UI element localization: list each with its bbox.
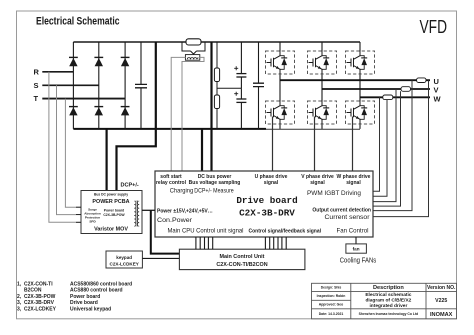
wire DC+ sampling to drive board <box>210 42 212 171</box>
relay bypass contact <box>182 42 205 54</box>
wire relay coil A to drive board <box>171 57 185 171</box>
svg-text:Version NO.: Version NO. <box>427 285 456 291</box>
wire U phase output <box>280 79 430 81</box>
power board U2 box <box>81 191 142 234</box>
svg-text:Inspection: Robin: Inspection: Robin <box>317 294 346 298</box>
balancing resistor R2 <box>214 42 219 82</box>
IGBT Q1 U-high <box>266 51 295 74</box>
label S <box>34 81 39 90</box>
wire inverter leg2 <box>321 42 323 129</box>
power board transformer T1 <box>134 201 139 227</box>
IGBT Q5 V-low <box>308 101 337 124</box>
svg-text:Current sensor: Current sensor <box>325 214 371 221</box>
wire DC- sampling to drive board <box>201 129 203 171</box>
drive board side labels <box>157 208 371 225</box>
svg-text:integrated driver: integrated driver <box>369 303 407 309</box>
svg-text:POWER PCBA: POWER PCBA <box>92 199 129 205</box>
svg-text:T: T <box>34 94 39 103</box>
wire bundle CPU control signals <box>196 237 213 249</box>
svg-text:C2X-3B-POW: C2X-3B-POW <box>103 213 125 217</box>
wire keypad to main control unit <box>142 257 179 259</box>
svg-text:Control signal/feedback signal: Control signal/feedback signal <box>249 228 322 234</box>
wire sensor W feedback b <box>373 100 387 197</box>
svg-text:1,: 1, <box>17 281 22 287</box>
title Electrical Schematic <box>36 16 120 28</box>
svg-text:keypad: keypad <box>116 255 132 260</box>
label R <box>34 67 40 76</box>
title VFD <box>420 16 448 37</box>
wire DCP+ feed to power board <box>117 42 156 191</box>
wire phase T input <box>42 98 125 100</box>
svg-text:signal: signal <box>346 180 361 186</box>
wire capacitor midpoint <box>217 87 241 89</box>
wire V phase output <box>322 88 430 90</box>
wire power to main control unit <box>151 210 180 253</box>
wire sensor U feedback b <box>373 80 429 216</box>
svg-text:Drive board: Drive board <box>236 195 297 206</box>
svg-text:fan: fan <box>353 247 360 252</box>
svg-text:Bus DC power supply: Bus DC power supply <box>94 192 128 196</box>
wire sensor V feedback b <box>373 91 401 206</box>
svg-text:Drive board: Drive board <box>70 300 98 306</box>
balancing resistor R3 <box>214 82 219 129</box>
svg-text:Main Control Unit: Main Control Unit <box>220 254 265 260</box>
svg-text:C2X-LCDKEY: C2X-LCDKEY <box>110 262 139 267</box>
diode D5 bottom leg2 <box>94 107 103 116</box>
wire sensor W feedback a <box>373 97 380 191</box>
wire power board to drive board <box>142 209 155 211</box>
svg-text:Power board: Power board <box>70 294 100 300</box>
power board labels <box>84 192 129 232</box>
wire W gate drive <box>352 117 354 172</box>
wire R tap to power board <box>49 72 81 223</box>
svg-text:C2X-3B-DRV: C2X-3B-DRV <box>24 300 55 306</box>
svg-text:Cooling FANs: Cooling FANs <box>340 256 377 265</box>
label DCP+/- <box>121 183 139 189</box>
IGBT Q3 W-high <box>346 51 375 74</box>
film capacitor C1 <box>135 42 147 129</box>
drive board title <box>236 195 297 219</box>
legend list <box>17 281 132 312</box>
svg-text:S: S <box>34 81 39 90</box>
fan box <box>346 244 367 253</box>
keypad box <box>106 251 142 268</box>
svg-text:SPD: SPD <box>89 220 96 224</box>
svg-text:Power ±15V,+24V,+5V…: Power ±15V,+24V,+5V… <box>157 209 213 215</box>
current sensor U <box>417 78 426 83</box>
svg-text:signal: signal <box>264 180 279 186</box>
wire relay coil B to drive board <box>182 57 204 171</box>
svg-text:2,: 2, <box>17 294 22 300</box>
bridge leg 2 wire <box>98 42 100 129</box>
svg-text:signal: signal <box>310 180 325 186</box>
terminal V <box>434 86 439 95</box>
drive board U1 box <box>155 171 373 237</box>
svg-text:V: V <box>434 86 439 95</box>
diode D6 bottom leg3 <box>121 107 130 116</box>
svg-text:Universal keypad: Universal keypad <box>70 307 111 313</box>
svg-text:R: R <box>34 67 40 76</box>
svg-text:B2CON: B2CON <box>24 288 42 294</box>
svg-text:DCP+/-: DCP+/- <box>121 183 139 189</box>
svg-text:Charging: Charging <box>170 188 194 195</box>
svg-text:ACS880 control board: ACS880 control board <box>70 288 123 294</box>
svg-text:C2X-CON-TI/B2CON: C2X-CON-TI/B2CON <box>216 262 267 268</box>
svg-text:INOMAX: INOMAX <box>430 312 453 318</box>
svg-text:W: W <box>434 94 442 103</box>
wire S tap to power board <box>57 85 82 214</box>
drive board bottom labels <box>168 227 369 234</box>
svg-text:DCP+/- Measure: DCP+/- Measure <box>194 188 234 195</box>
wire fan control <box>355 237 357 244</box>
electrolytic capacitor C2 <box>234 42 246 88</box>
soft start charging resistor <box>186 39 201 45</box>
svg-text:Description: Description <box>373 285 404 291</box>
diode D2 top leg2 <box>94 57 103 66</box>
IGBT Q4 U-low <box>266 101 295 124</box>
svg-text:U: U <box>434 77 439 86</box>
label cooling fans <box>340 256 377 265</box>
current sensor V <box>401 87 411 92</box>
svg-text:PWM IGBT Driving: PWM IGBT Driving <box>307 190 361 197</box>
bridge leg 3 wire <box>124 42 126 129</box>
terminal W <box>434 94 442 103</box>
wire U gate drive <box>272 117 274 172</box>
svg-text:Varistor MOV: Varistor MOV <box>94 227 128 233</box>
film capacitor C4 <box>253 42 264 129</box>
svg-text:ACS580/860 control board: ACS580/860 control board <box>70 281 132 287</box>
svg-text:relay control: relay control <box>156 180 187 186</box>
electrolytic capacitor C3 <box>234 88 246 129</box>
wire DCP- feed to power board <box>105 129 107 191</box>
wire sensor V feedback a <box>373 89 396 202</box>
wire T tap to power board <box>65 99 81 208</box>
bottom DC- bus <box>73 128 360 130</box>
svg-text:Con.Power: Con.Power <box>157 217 193 224</box>
svg-text:Main CPU Control unit signal: Main CPU Control unit signal <box>168 227 244 234</box>
IGBT Q6 W-low <box>346 101 375 124</box>
svg-text:Electrical schematic: Electrical schematic <box>365 292 411 298</box>
bridge leg 1 wire <box>72 42 74 129</box>
svg-text:C2X-LCDKEY: C2X-LCDKEY <box>24 307 57 313</box>
title block texts <box>317 285 456 318</box>
IGBT Q2 V-high <box>308 51 337 74</box>
svg-text:Design: Shis: Design: Shis <box>321 286 342 290</box>
wire inverter leg3 <box>359 42 361 129</box>
svg-text:V225: V225 <box>435 298 447 304</box>
svg-text:diagram of C/B/E/X2: diagram of C/B/E/X2 <box>365 298 411 304</box>
main control unit box <box>179 249 305 269</box>
wire bundle control feedback signals <box>265 237 286 249</box>
title block table <box>312 283 457 319</box>
wire sensor U feedback a <box>373 80 412 210</box>
terminal U <box>434 77 439 86</box>
svg-text:VFD: VFD <box>420 16 448 37</box>
diode D3 top leg3 <box>121 57 130 66</box>
svg-text:Approved: Geo: Approved: Geo <box>319 303 344 307</box>
svg-text:Power board: Power board <box>104 209 125 213</box>
power board input stubs <box>76 207 81 222</box>
wire V gate drive <box>314 117 316 172</box>
svg-text:Date: 14.3.2021: Date: 14.3.2021 <box>319 312 344 316</box>
top DC+ bus <box>73 41 360 43</box>
svg-text:C2X-3B-DRV: C2X-3B-DRV <box>239 208 295 219</box>
current sensor W <box>383 95 393 100</box>
diode D1 top leg1 <box>69 57 78 66</box>
svg-text:Output current detection: Output current detection <box>312 208 371 214</box>
wire W phase output <box>360 96 430 98</box>
svg-text:Fan Control: Fan Control <box>337 227 369 234</box>
svg-text:C2X-CON-TI: C2X-CON-TI <box>24 281 53 287</box>
svg-text:Shenzhen Inomax technology Co: Shenzhen Inomax technology Co Ltd <box>359 312 419 316</box>
wire inverter leg1 <box>279 42 281 129</box>
svg-text:Bus voltage sampling: Bus voltage sampling <box>189 180 241 186</box>
drive board labels top row <box>156 174 371 197</box>
svg-text:C2X-3B-POW: C2X-3B-POW <box>24 294 56 300</box>
svg-text:Electrical Schematic: Electrical Schematic <box>36 16 120 28</box>
svg-text:3,: 3, <box>17 300 22 306</box>
svg-text:3,: 3, <box>17 307 22 313</box>
diode D4 bottom leg1 <box>69 107 78 116</box>
relay coil K1 <box>185 55 199 61</box>
wire phase S input <box>42 84 99 86</box>
label T <box>34 94 39 103</box>
wire phase R input <box>42 71 73 73</box>
